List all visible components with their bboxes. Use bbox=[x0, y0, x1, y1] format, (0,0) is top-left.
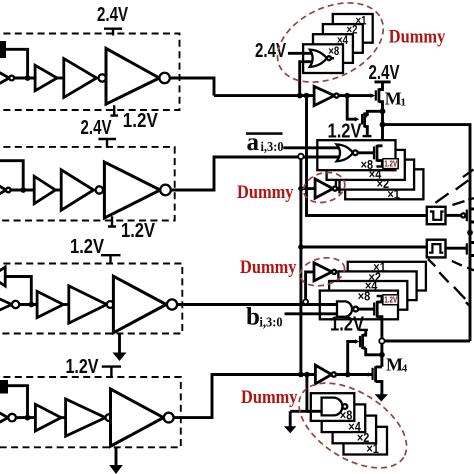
ground tie dummy nand bbox=[289, 411, 292, 426]
dummy xor output stub bbox=[331, 57, 334, 59]
junction M1 drain bbox=[380, 108, 386, 114]
svg-text:Dummy: Dummy bbox=[237, 182, 294, 203]
dummy xor stack rect x1 bbox=[333, 14, 373, 43]
b-side circuitry bbox=[240, 254, 470, 474]
buffer stage 2 row 1 bbox=[64, 59, 97, 98]
wire row 3 output to nand input bbox=[177, 303, 341, 306]
wire gate feed M2 bbox=[347, 96, 356, 120]
dummy ellipse b bbox=[298, 254, 348, 290]
buffer bubble b bbox=[332, 372, 336, 376]
feedback wire row 3 bbox=[5, 277, 31, 305]
transistor M4 bbox=[368, 372, 372, 377]
input inverter row 2 (cut at edge) bbox=[0, 181, 6, 199]
wire 2.4V to dummy xor input bbox=[288, 52, 314, 55]
input inverter row 4 (cut at edge) bbox=[0, 408, 8, 427]
dashed box row 1 bbox=[0, 34, 180, 111]
output stage 3 row 1 bbox=[106, 48, 159, 104]
junction row 1 bbox=[25, 75, 31, 81]
wire row2 into xor (redraw over rects) bbox=[300, 156, 342, 159]
stage 2 bubble row 4 bbox=[106, 414, 113, 421]
bus b dummy inverter tap bbox=[303, 299, 308, 304]
nmos in stack b bbox=[373, 303, 375, 316]
nand stack rect x4 (b real) bbox=[329, 281, 407, 310]
supply bar M1 bbox=[375, 80, 391, 83]
buffer stage 1 row 1 bbox=[35, 65, 57, 90]
buffer stage 2 row 3 bbox=[69, 286, 107, 323]
row 3 driver chain (1.2V domain) bbox=[0, 236, 341, 361]
wire node a to dummy xor input bbox=[300, 62, 314, 96]
buffer stage 1 row 4 bbox=[35, 404, 61, 431]
abar input label with overline bbox=[246, 132, 282, 135]
inverter bubble row 3 bbox=[12, 301, 19, 308]
junction node a to pulse bus bbox=[304, 93, 310, 99]
svg-text:Dummy: Dummy bbox=[389, 26, 446, 47]
dummy inverter a bubble bbox=[333, 187, 337, 191]
dummy inverter a output stub bbox=[337, 180, 339, 193]
dashed box row 2 bbox=[0, 147, 175, 221]
wire abar to xor input bbox=[283, 146, 342, 149]
xor stack rect x2 (a real) bbox=[336, 160, 414, 190]
ground arrow row 4 bbox=[115, 447, 118, 465]
pulse box 1 bbox=[427, 207, 446, 224]
bus row1 to pulse box 1 bbox=[307, 96, 427, 216]
wire M1 drain to M2 bbox=[367, 111, 382, 116]
feedback wire row 4 bbox=[8, 386, 28, 418]
wire dummy nand input inside bbox=[307, 410, 322, 413]
svg-text:i,3:0: i,3:0 bbox=[261, 140, 284, 155]
feedback wire row 2 bbox=[0, 161, 23, 190]
dashed rays upper bbox=[435, 170, 473, 203]
dummy xor stack rect x8 bbox=[303, 44, 343, 73]
svg-text:×8: ×8 bbox=[358, 289, 371, 303]
dummy nand stack rect x8 bbox=[311, 393, 355, 421]
svg-text:1.2V: 1.2V bbox=[66, 356, 100, 378]
xor stack rect x8 (a real) bbox=[317, 140, 395, 170]
feedback wire row 1 bbox=[6, 49, 28, 78]
output nmos bbox=[466, 243, 468, 254]
body bias tap row 1 bbox=[110, 105, 118, 115]
wire row 1 bbox=[14, 77, 35, 80]
wire b to nand input bbox=[285, 312, 342, 315]
wire row 2 bbox=[11, 189, 35, 192]
junction drain to output wire bbox=[380, 122, 386, 128]
supply tap symbol row 4 bbox=[102, 367, 121, 378]
wire row 1 output to node a bbox=[170, 78, 214, 96]
output stage 3 row 3 bbox=[113, 276, 166, 333]
inverter bubble row 1 bbox=[9, 76, 14, 81]
output bubble row 4 bbox=[164, 413, 174, 423]
junction pulse box 2 tap bbox=[298, 244, 303, 249]
junction node a to stack bbox=[297, 93, 303, 99]
svg-text:M: M bbox=[385, 89, 402, 109]
wire to dummy inverter a bbox=[301, 187, 316, 190]
buffer stage 1 row 2 bbox=[34, 176, 55, 203]
junction buffer out b bbox=[345, 372, 351, 378]
svg-text:×4: ×4 bbox=[337, 35, 348, 47]
buffer inverter a bbox=[314, 86, 334, 105]
a-side circuitry bbox=[214, 0, 470, 374]
stage 2 bubble row 1 bbox=[99, 74, 106, 81]
wire b output rail bbox=[385, 340, 470, 343]
nmos in stack a bbox=[373, 146, 375, 159]
nand stack rect x1 (b real) bbox=[348, 262, 426, 291]
svg-text:2.4V: 2.4V bbox=[81, 117, 112, 139]
xor stack rect x4 (a real) bbox=[327, 150, 405, 180]
dashed rays lower bbox=[428, 259, 471, 307]
ground arrow row 3 bbox=[118, 334, 121, 354]
row 4 driver chain (1.2V domain, complement) bbox=[0, 356, 317, 474]
body bias tap row 2 bbox=[108, 216, 116, 226]
svg-text:1.2V: 1.2V bbox=[123, 110, 159, 132]
stage 2 bubble row 2 bbox=[96, 186, 103, 193]
dummy inverter b bubble bbox=[332, 270, 336, 274]
svg-text:2.4V: 2.4V bbox=[255, 40, 286, 62]
buffer inverter b bbox=[315, 365, 331, 384]
xor stack rect x1 (a real) bbox=[345, 169, 423, 199]
svg-text:×1: ×1 bbox=[366, 442, 379, 456]
output pmos gate bubble bbox=[461, 213, 465, 217]
xor gate a real bbox=[337, 144, 353, 161]
wire xor to nmos a bbox=[358, 151, 374, 154]
dummy nand stack rect x2 bbox=[333, 416, 377, 444]
wire row 4 bbox=[16, 416, 36, 419]
buffer stage 2 row 4 bbox=[66, 399, 106, 436]
mini bias box 1.2V a bbox=[383, 159, 398, 169]
transistor M1 (PMOS) bbox=[370, 93, 375, 98]
feedback block row 1 bbox=[0, 41, 6, 58]
dummy nand stack rect x4 bbox=[322, 404, 366, 432]
output bubble row 3 bbox=[167, 299, 177, 309]
dummy xor gate bbox=[310, 50, 327, 67]
wire buffer to M4 gate bbox=[336, 373, 372, 376]
node a drain column bbox=[381, 111, 384, 146]
dummy inverter b bbox=[314, 263, 332, 281]
dummy ellipse top bbox=[265, 0, 396, 98]
wire pulse box 1 to output pmos bbox=[446, 214, 462, 217]
transistor M3 (clamp) bbox=[355, 339, 359, 344]
wire pulse box 2 to output nmos bbox=[446, 247, 467, 250]
svg-text:i,3:0: i,3:0 bbox=[260, 315, 283, 330]
supply tap symbol row 2 bbox=[98, 139, 116, 148]
svg-text:a: a bbox=[247, 129, 260, 156]
supply tap symbol row 1 bbox=[104, 29, 122, 36]
output stage 3 row 4 bbox=[111, 389, 164, 446]
dummy inverter a bbox=[315, 179, 333, 198]
dashed box row 4 bbox=[0, 377, 181, 447]
dashed box row 3 bbox=[0, 264, 182, 334]
svg-text:1.2V: 1.2V bbox=[121, 220, 156, 242]
transistor M2 (clamp) bbox=[355, 117, 359, 122]
input inverter row 1 (cut at edge) bbox=[0, 69, 9, 87]
nand gate b real bbox=[337, 301, 352, 316]
junction M4 drain bbox=[379, 352, 385, 358]
wire gate feed M3 bbox=[348, 342, 356, 375]
svg-text:Dummy: Dummy bbox=[240, 257, 297, 278]
dummy nand bubble bbox=[343, 404, 348, 409]
nand stack rect x2 (b real) bbox=[338, 271, 416, 300]
dummy nand stack rect x1 bbox=[344, 427, 388, 455]
wire nand to nmos b bbox=[358, 308, 374, 311]
wire bbox=[63, 303, 69, 306]
junction row 2 bbox=[20, 187, 26, 193]
output pmos bbox=[466, 210, 468, 222]
bus to dummy nand bbox=[305, 375, 308, 412]
svg-text:1.2V: 1.2V bbox=[384, 296, 398, 305]
junction dummy inverter a tap bbox=[298, 186, 303, 191]
dummy nand gate bbox=[322, 398, 343, 416]
supply tap symbol row 3 bbox=[101, 255, 121, 264]
feedback block row 4 bbox=[0, 380, 8, 394]
wire drain column b bbox=[380, 344, 383, 367]
svg-text:1.2V: 1.2V bbox=[70, 236, 105, 258]
svg-text:×2: ×2 bbox=[347, 25, 358, 37]
wire row 2 output to xor input bbox=[171, 157, 342, 190]
junction bus taps row4 bbox=[298, 372, 304, 378]
dummy xor bubble bbox=[327, 56, 331, 60]
pulse generators and output devices bbox=[427, 170, 474, 307]
wire row 4 output to buffer M4 bbox=[174, 375, 317, 418]
feedback inverter row 3 (cut at edge) bbox=[0, 267, 5, 286]
svg-text:×1: ×1 bbox=[387, 188, 400, 202]
svg-text:4: 4 bbox=[402, 362, 408, 374]
output bubble row 1 bbox=[159, 73, 169, 83]
output stage 3 row 2 bbox=[104, 162, 160, 218]
junction row 3 bbox=[28, 302, 34, 308]
wire M4 drain to M3 bbox=[366, 348, 382, 355]
pulse glyph box 2 (pulse) bbox=[429, 244, 443, 253]
bus row2 down bbox=[299, 159, 302, 374]
junction row 4 bbox=[25, 415, 31, 421]
wire a output rail bbox=[383, 125, 471, 341]
inverter bubble row 2 bbox=[6, 188, 11, 193]
wire bbox=[55, 189, 61, 192]
junction buffer out a bbox=[344, 93, 350, 99]
dummy xor stack rect x4 bbox=[313, 34, 353, 63]
svg-text:Dummy: Dummy bbox=[241, 387, 298, 408]
ground arrow M4 bbox=[375, 394, 388, 401]
buffer stage 1 row 3 bbox=[37, 291, 63, 317]
dummy xor stack rect x2 bbox=[323, 24, 363, 53]
wire bbox=[57, 77, 64, 80]
nmos source foot bar b bbox=[377, 295, 386, 297]
nand bubble b real bbox=[353, 307, 358, 312]
svg-text:M: M bbox=[386, 355, 403, 375]
buffer bubble a bbox=[334, 94, 338, 98]
nmos source foot bar a bbox=[376, 165, 385, 167]
svg-text:1: 1 bbox=[401, 96, 407, 108]
pulse box 2 bbox=[427, 240, 446, 258]
wire bus to pulse box 2 bbox=[301, 246, 427, 249]
svg-text:1.2V: 1.2V bbox=[384, 159, 398, 168]
wire row3 into nand (redraw over rects) bbox=[301, 303, 341, 306]
row 1 driver chain (2.4V domain) bbox=[0, 4, 214, 132]
svg-text:2.4V: 2.4V bbox=[97, 4, 128, 26]
svg-text:1.2V: 1.2V bbox=[330, 313, 365, 335]
wire row 3 bbox=[19, 303, 37, 306]
buffer stage 2 row 2 bbox=[61, 170, 93, 210]
output bubble row 2 bbox=[160, 185, 171, 196]
ring junction row2 bus bbox=[298, 154, 303, 159]
input inverter row 3 (cut at edge) bbox=[0, 295, 12, 314]
dummy ellipse a bbox=[300, 168, 348, 207]
wire dummy nand input bbox=[290, 410, 322, 413]
junction output node bbox=[467, 230, 473, 236]
row 2 driver chain (2.4V domain, complement) bbox=[0, 117, 342, 242]
svg-text:b: b bbox=[246, 304, 260, 331]
pulse glyph box 1 (notch) bbox=[430, 212, 444, 220]
node a wire bbox=[214, 94, 371, 97]
stage 2 bubble row 3 bbox=[107, 301, 114, 308]
ring junction b output rail bbox=[379, 338, 384, 343]
inverter bubble row 4 bbox=[8, 414, 16, 422]
nand stack rect x8 (b real) bbox=[320, 291, 398, 320]
xor bubble a real bbox=[353, 150, 358, 155]
wire bbox=[61, 416, 66, 419]
bias foot bar M2 bbox=[363, 135, 372, 137]
dummy ellipse bottom bbox=[284, 366, 421, 474]
mini bias box 1.2V b bbox=[383, 295, 398, 305]
bias top bar M3 bbox=[359, 329, 368, 331]
